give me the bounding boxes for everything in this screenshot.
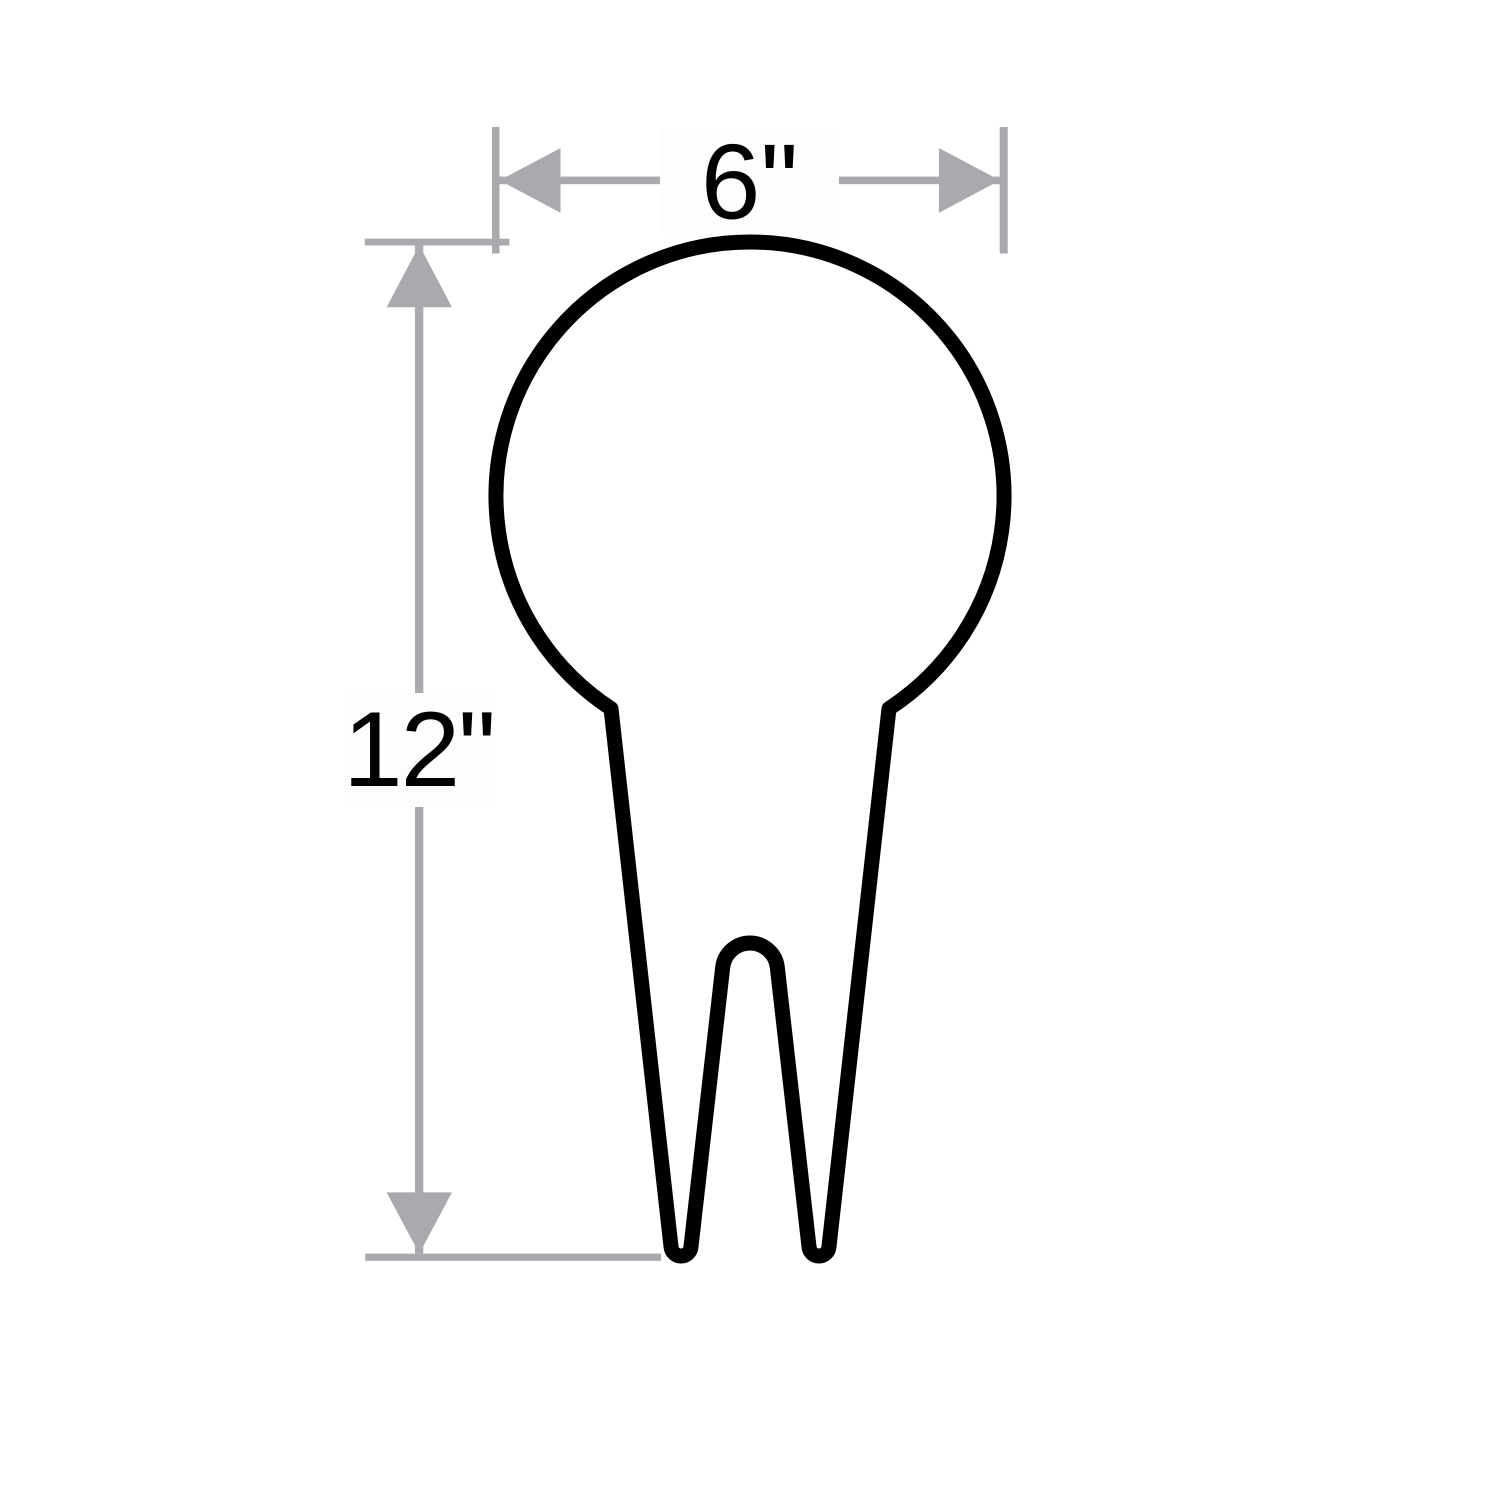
6-inch right arrowhead bbox=[939, 148, 1000, 213]
6-inch dimension: left extension line bbox=[492, 127, 500, 254]
svg-text:6": 6" bbox=[701, 122, 799, 242]
6-inch dimension line bbox=[500, 177, 1001, 185]
label background for 12" bbox=[344, 693, 494, 807]
12-inch dimension: bottom extension line bbox=[365, 1254, 661, 1261]
label background for 6" bbox=[660, 128, 839, 233]
12-inch bottom arrowhead bbox=[387, 1192, 452, 1253]
12-inch dimension: top extension line bbox=[365, 239, 510, 246]
divot tool outline bbox=[496, 242, 1004, 1256]
6-inch dimension: right extension line bbox=[1000, 127, 1008, 254]
svg-text:12": 12" bbox=[343, 689, 494, 809]
12-inch top arrowhead bbox=[387, 245, 452, 307]
12-inch dimension line bbox=[415, 245, 423, 1253]
6-inch left arrowhead bbox=[500, 148, 561, 213]
